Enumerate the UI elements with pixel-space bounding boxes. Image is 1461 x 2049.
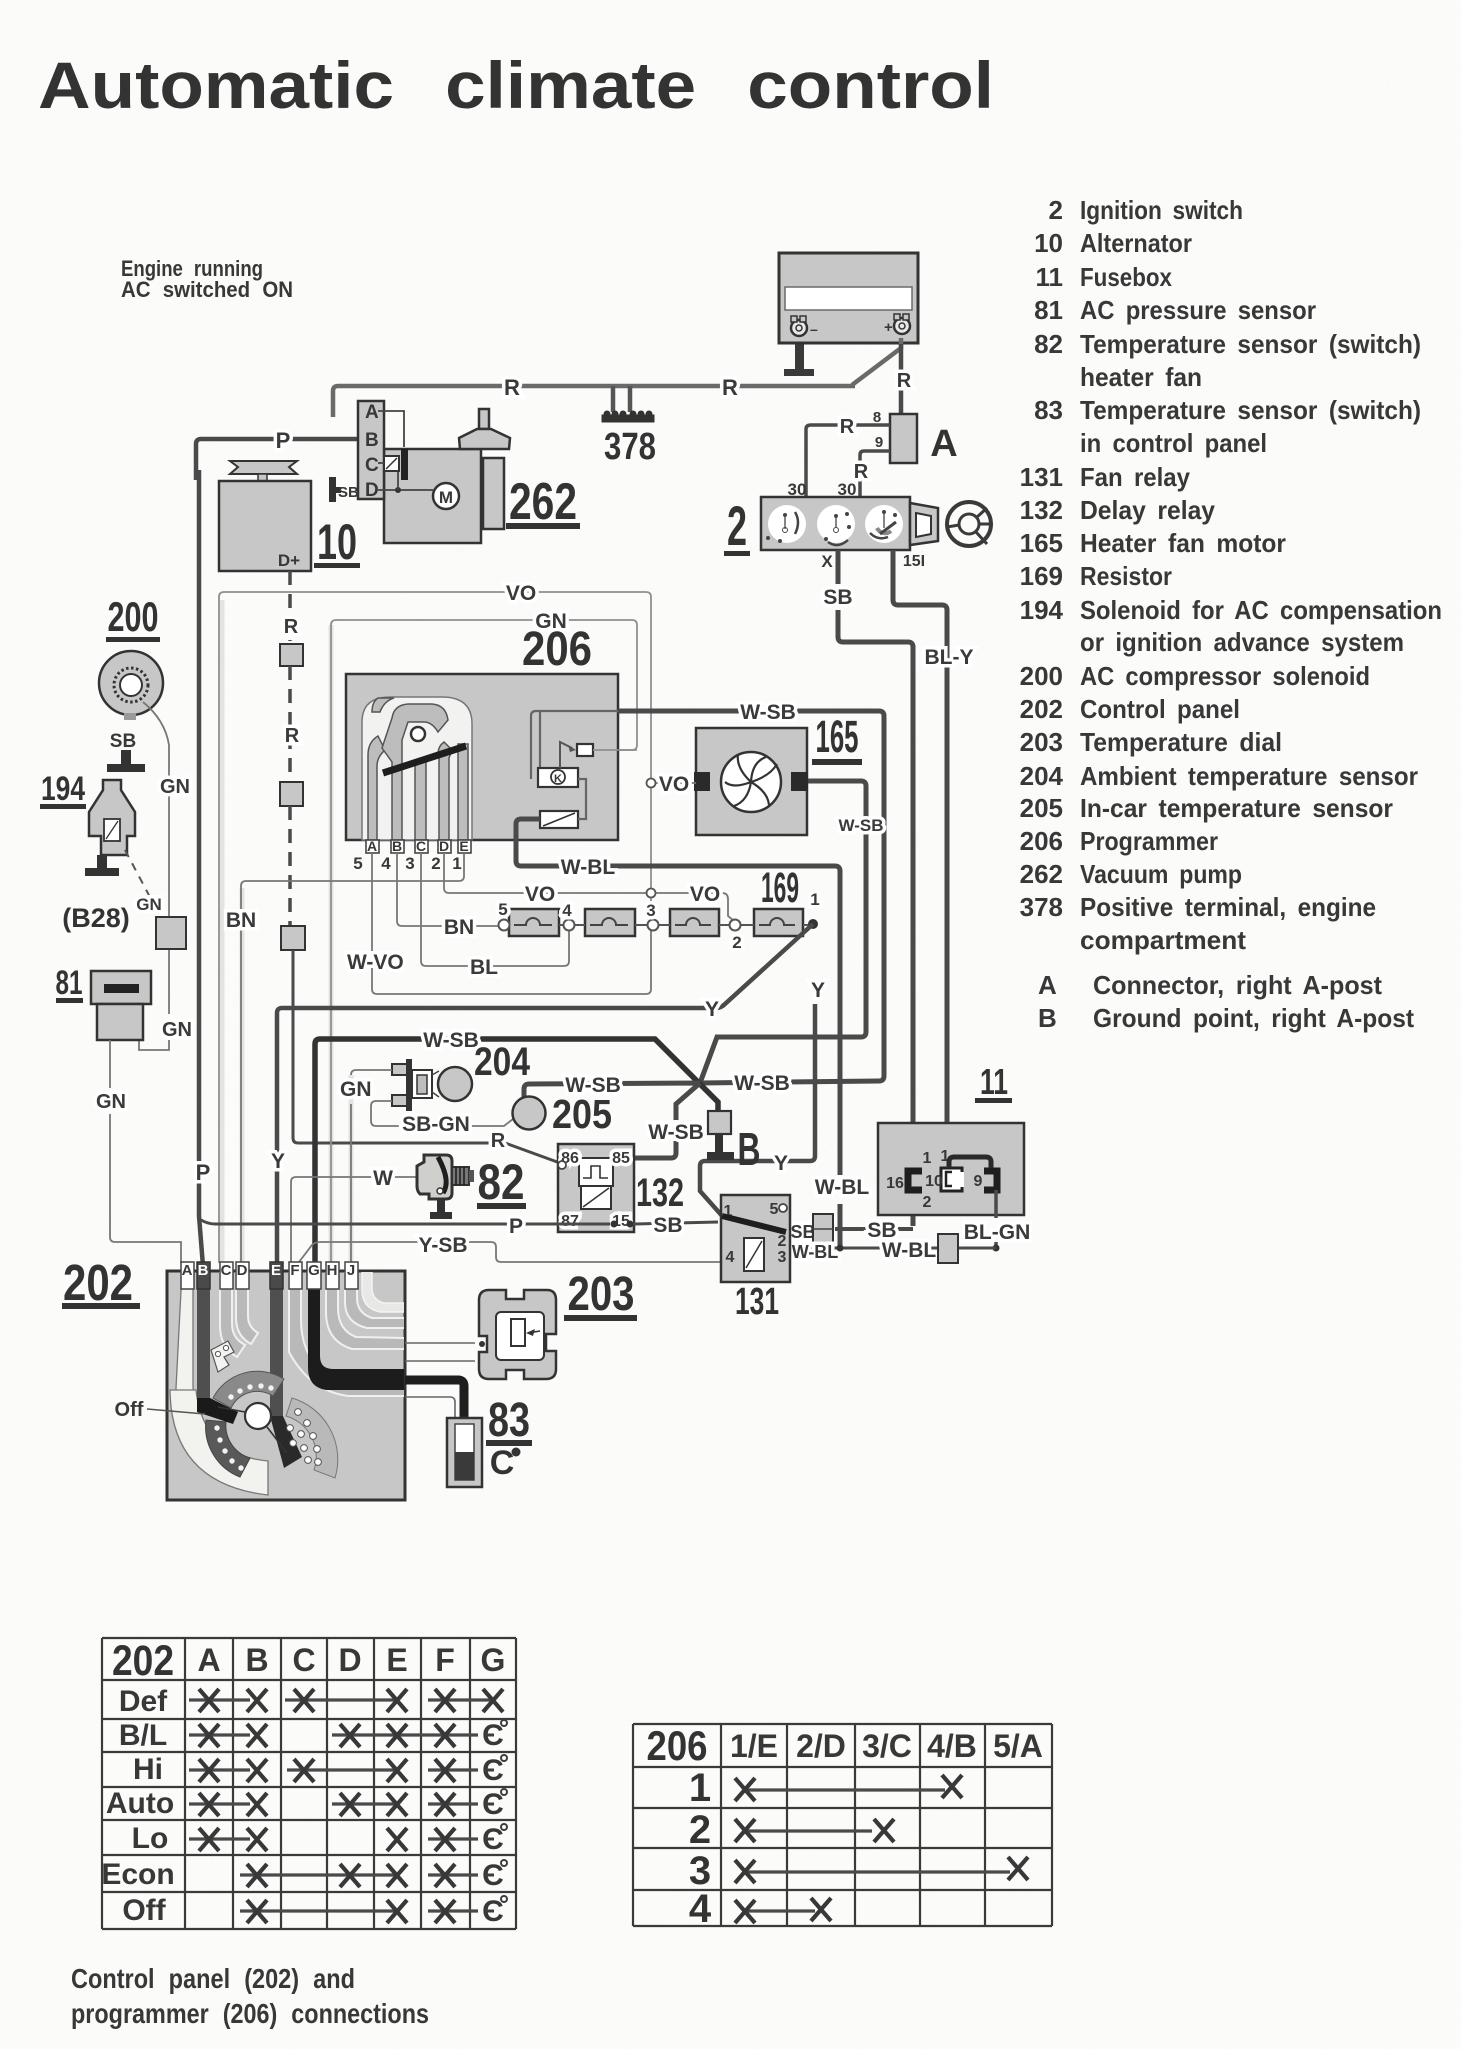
- table 202 marks: [189, 1700, 490, 1911]
- svg-text:3/C: 3/C: [862, 1728, 912, 1764]
- svg-text:2: 2: [431, 854, 440, 873]
- wire GN 204 to H column: [351, 1070, 392, 1263]
- extra white strip right: [362, 1271, 405, 1312]
- ambient sensor 204: [392, 1059, 472, 1111]
- wire 202 to 203 top: [405, 1342, 475, 1344]
- svg-text:132: 132: [636, 1171, 684, 1215]
- pump valve C: [384, 456, 399, 471]
- svg-text:Alternator: Alternator: [1080, 228, 1192, 258]
- svg-text:Off: Off: [115, 1399, 144, 1421]
- fan left tab: [694, 772, 710, 791]
- svg-text:5: 5: [498, 900, 507, 919]
- wire P vertical: [199, 470, 203, 1266]
- big white arc: [170, 1390, 268, 1495]
- svg-text:Vacuum pump: Vacuum pump: [1080, 859, 1242, 889]
- svg-text:AC compressor solenoid: AC compressor solenoid: [1080, 661, 1370, 691]
- svg-text:Y: Y: [705, 998, 719, 1021]
- node circle VO: [647, 889, 656, 898]
- svg-text:W-BL: W-BL: [815, 1176, 870, 1199]
- ghost scan bands: [222, 600, 351, 1262]
- relay 132 timer symbol: [579, 1158, 613, 1186]
- relay 132 terminal circle 86: [558, 1161, 566, 1169]
- svg-text:200: 200: [1020, 661, 1063, 691]
- svg-text:4: 4: [381, 854, 391, 873]
- svg-text:202: 202: [112, 1637, 174, 1685]
- relay 132 bottom terminals: [611, 1221, 618, 1228]
- connector box B28: [156, 917, 186, 949]
- wire W 82 to connector F: [291, 1177, 417, 1263]
- svg-text:–: –: [810, 321, 818, 337]
- panel connector letters: [181, 1262, 358, 1289]
- dashed wire 194 to B28 connector: [125, 850, 160, 916]
- svg-text:194: 194: [41, 770, 85, 808]
- terminal dot relay 132 85: [627, 1155, 634, 1162]
- arc dots: [214, 1383, 273, 1470]
- terminal circles: [499, 920, 510, 931]
- svg-text:B: B: [365, 430, 379, 451]
- battery: [779, 253, 918, 343]
- programmer arrow box: [577, 744, 593, 756]
- strip E dark: [270, 1271, 283, 1416]
- pump pin D wire to motor: [378, 489, 433, 491]
- solenoid 194: [89, 780, 135, 855]
- in-car sensor 205: [513, 1097, 546, 1130]
- switch contact circle 3: [865, 505, 903, 543]
- wire thick black 202 to 83: [405, 1380, 464, 1420]
- svg-text:82: 82: [478, 1154, 525, 1210]
- arc upper with dots: [213, 1371, 284, 1408]
- svg-text:R: R: [504, 375, 520, 400]
- svg-text:W-VO: W-VO: [347, 951, 404, 974]
- wire W-SB 204 to X (G wire): [315, 1039, 718, 1263]
- svg-text:W-BL: W-BL: [561, 856, 616, 879]
- svg-text:W-SB: W-SB: [648, 1121, 704, 1144]
- svg-text:D: D: [439, 838, 449, 854]
- svg-text:M: M: [439, 488, 453, 507]
- resistor hump symbols: [514, 918, 795, 925]
- programmer 206 box: [346, 674, 618, 840]
- svg-text:BN: BN: [226, 909, 256, 932]
- table 206 row numbers: [689, 1766, 712, 1931]
- svg-text:E: E: [271, 1262, 281, 1279]
- svg-text:heater fan: heater fan: [1080, 362, 1202, 392]
- svg-text:11: 11: [1036, 262, 1064, 292]
- programmer GN stub: [593, 749, 637, 751]
- svg-text:W-SB: W-SB: [423, 1029, 479, 1052]
- ignition switch 2 box: [761, 497, 910, 550]
- svg-text:5/A: 5/A: [993, 1728, 1043, 1764]
- wire Y-SB connector F to relay 131 4: [296, 1242, 721, 1266]
- svg-text:BN: BN: [444, 916, 474, 939]
- svg-text:169: 169: [761, 864, 799, 912]
- svg-text:11: 11: [980, 1061, 1008, 1102]
- wire GN from 200 to 81: [139, 702, 169, 1050]
- svg-text:Solenoid for AC compensation: Solenoid for AC compensation: [1080, 595, 1442, 625]
- svg-text:W: W: [373, 1167, 393, 1190]
- svg-text:W-BL: W-BL: [882, 1239, 937, 1262]
- svg-text:2: 2: [923, 1194, 932, 1211]
- svg-text:Y: Y: [811, 979, 825, 1002]
- svg-text:A: A: [1038, 970, 1057, 1000]
- legend list: [1020, 195, 1442, 1033]
- svg-text:VO: VO: [690, 883, 720, 906]
- svg-text:132: 132: [1020, 495, 1063, 525]
- svg-text:1: 1: [452, 854, 461, 873]
- svg-text:GN: GN: [162, 1019, 192, 1041]
- table 206 marks: [745, 1790, 1010, 1911]
- resistor terminal links: [559, 924, 809, 926]
- svg-text:131: 131: [1020, 462, 1063, 492]
- svg-text:C: C: [490, 1444, 515, 1482]
- svg-text:W-SB: W-SB: [740, 701, 796, 724]
- strip H: [326, 1271, 405, 1349]
- svg-text:D: D: [365, 480, 379, 501]
- svg-text:2/D: 2/D: [796, 1728, 846, 1764]
- svg-text:A: A: [197, 1642, 220, 1678]
- black wedge E needle: [270, 1416, 302, 1468]
- svg-text:B: B: [738, 1123, 761, 1175]
- strip A white: [176, 1271, 222, 1462]
- fuse bridge 10 to 9: [949, 1157, 991, 1168]
- terminal 378 stubs: [613, 386, 630, 412]
- svg-text:205: 205: [1020, 793, 1063, 823]
- wire fuse 9 to BL-GN dot: [994, 1190, 998, 1247]
- svg-text:VO: VO: [506, 582, 536, 605]
- programmer maze white area: [362, 697, 472, 840]
- svg-text:K: K: [554, 773, 562, 785]
- terminal dot 1: [808, 919, 818, 929]
- svg-text:R: R: [840, 416, 855, 438]
- svg-text:BL-GN: BL-GN: [964, 1221, 1031, 1244]
- svg-text:SB-GN: SB-GN: [402, 1113, 470, 1136]
- svg-text:J: J: [347, 1262, 355, 1279]
- pump black bar: [401, 449, 408, 480]
- svg-text:In-car temperature sensor: In-car temperature sensor: [1080, 793, 1393, 823]
- wire R dashed from D+: [288, 571, 292, 641]
- ground point B bar: [715, 1134, 723, 1154]
- table 202 grid: [102, 1638, 516, 1929]
- wire GN from 81 to connector A202: [110, 1040, 181, 1263]
- svg-text:165: 165: [1020, 528, 1063, 558]
- battery ground: [784, 369, 814, 376]
- temp sensor 82: [417, 1155, 474, 1219]
- svg-text:C: C: [221, 1262, 232, 1279]
- svg-text:Automatic climate control: Automatic climate control: [38, 48, 994, 122]
- svg-text:1/E: 1/E: [730, 1728, 778, 1764]
- programmer maze traces: [368, 698, 468, 840]
- svg-text:8: 8: [873, 409, 881, 426]
- svg-text:202: 202: [1020, 694, 1063, 724]
- fan right tab: [791, 772, 808, 791]
- svg-text:A: A: [930, 423, 957, 465]
- svg-text:203: 203: [1020, 727, 1063, 757]
- svg-text:BL: BL: [470, 956, 498, 979]
- svg-text:Off: Off: [122, 1894, 166, 1927]
- svg-text:R: R: [285, 725, 300, 747]
- wire W-SB fan to X: [700, 781, 866, 1083]
- relay 132 coil: [581, 1186, 611, 1209]
- svg-text:C: C: [365, 455, 379, 476]
- AC pressure sensor 81: [91, 971, 151, 1004]
- svg-text:Ground point, right A-post: Ground point, right A-post: [1093, 1003, 1414, 1033]
- wire R dashed 3: [288, 806, 292, 926]
- temperature dial 203: [479, 1290, 556, 1379]
- svg-text:378: 378: [1020, 892, 1063, 922]
- programmer solenoid box: [540, 811, 578, 828]
- svg-text:203: 203: [568, 1268, 635, 1321]
- svg-text:Delay relay: Delay relay: [1080, 495, 1216, 525]
- wire pin B to resistor 5 (BN): [397, 853, 498, 926]
- svg-text:4/B: 4/B: [927, 1728, 977, 1764]
- connector on R wire 3: [281, 926, 305, 950]
- alternator 10 pulley: [230, 461, 297, 474]
- node dot W-BL: [837, 1245, 844, 1252]
- programmer loop wire: [578, 779, 586, 819]
- svg-text:Programmer: Programmer: [1080, 826, 1218, 856]
- black wedge B pointer: [197, 1398, 238, 1424]
- svg-text:2: 2: [778, 1233, 787, 1250]
- wire W-BL relay 131 3 to BL-GN dot: [790, 1247, 996, 1250]
- wire Y from resistor 1 to connector E: [277, 924, 813, 1263]
- connector on R wire 1: [280, 644, 303, 666]
- relay 131 blade: [722, 1216, 786, 1232]
- svg-text:H: H: [327, 1262, 338, 1279]
- svg-text:in control panel: in control panel: [1080, 428, 1267, 458]
- knob: [245, 1403, 271, 1429]
- svg-text:W-BL: W-BL: [792, 1242, 839, 1262]
- key symbol: [947, 502, 991, 546]
- svg-text:Control panel (202) and: Control panel (202) and: [71, 1963, 355, 1994]
- control panel 202 box: [167, 1271, 405, 1500]
- svg-text:206: 206: [1020, 826, 1063, 856]
- connector on R wire 2: [280, 782, 303, 806]
- svg-text:P: P: [196, 1160, 211, 1185]
- svg-text:+: +: [884, 319, 893, 336]
- connector A box: [890, 414, 917, 463]
- svg-text:Positive terminal, engine: Positive terminal, engine: [1080, 892, 1376, 922]
- svg-text:E: E: [459, 838, 468, 854]
- svg-text:Hi: Hi: [133, 1753, 163, 1786]
- wire frame GN (net GN: H - programmer): [331, 620, 637, 1263]
- svg-text:G: G: [481, 1642, 506, 1678]
- svg-text:Auto: Auto: [106, 1787, 174, 1820]
- svg-text:Temperature sensor (switch): Temperature sensor (switch): [1080, 395, 1421, 425]
- right sector dots: [286, 1398, 338, 1478]
- svg-text:GN: GN: [136, 895, 162, 914]
- AC compressor solenoid 200: [99, 651, 163, 715]
- table 202 C-degree symbols in G column: [482, 1719, 507, 1928]
- svg-text:5: 5: [353, 854, 362, 873]
- svg-text:VO: VO: [525, 883, 555, 906]
- svg-text:D+: D+: [278, 551, 300, 570]
- svg-text:compartment: compartment: [1080, 925, 1246, 955]
- resistor 169 elements: [509, 909, 803, 936]
- svg-text:16: 16: [886, 1175, 904, 1192]
- svg-text:Fusebox: Fusebox: [1080, 262, 1172, 292]
- svg-text:1: 1: [689, 1766, 711, 1810]
- fan relay 131 box: [721, 1195, 790, 1282]
- svg-text:AC switched ON: AC switched ON: [121, 277, 293, 302]
- svg-text:200: 200: [108, 593, 159, 640]
- wire W-SB 205 to X and to relay 132: [524, 1083, 700, 1158]
- strip F: [289, 1271, 405, 1396]
- arc lower with dots: [206, 1420, 250, 1477]
- relay 131 coil: [744, 1238, 764, 1271]
- programmer needle: [383, 746, 466, 773]
- svg-text:GN: GN: [96, 1091, 126, 1113]
- battery terminal plus: [884, 314, 910, 336]
- svg-text:194: 194: [1020, 595, 1064, 625]
- connector on W-BL wire: [938, 1234, 958, 1263]
- svg-text:SB: SB: [823, 586, 852, 609]
- svg-text:B: B: [392, 838, 402, 854]
- temp sensor 83: [447, 1418, 482, 1487]
- svg-text:A: A: [367, 838, 377, 854]
- svg-text:GN: GN: [340, 1078, 372, 1101]
- fuse 9 bracket: [984, 1171, 997, 1190]
- wire P to relay 132 87: [201, 1220, 610, 1224]
- svg-text:9: 9: [974, 1173, 983, 1190]
- svg-text:SB: SB: [790, 1222, 815, 1242]
- ground under 194: [97, 855, 107, 872]
- vacuum pump 262 body blocks: [358, 401, 510, 543]
- programmer relay wire top: [531, 711, 618, 779]
- svg-text:B: B: [1038, 1003, 1057, 1033]
- svg-text:Y-SB: Y-SB: [418, 1234, 467, 1257]
- svg-text:Lo: Lo: [132, 1822, 169, 1855]
- fan wheel: [721, 752, 781, 812]
- strip G black: [308, 1271, 405, 1390]
- svg-text:169: 169: [1020, 561, 1063, 591]
- svg-text:1: 1: [923, 1150, 932, 1167]
- svg-text:E: E: [386, 1642, 407, 1678]
- svg-text:AC pressure sensor: AC pressure sensor: [1080, 295, 1316, 325]
- switch connector trapezoid: [910, 503, 938, 545]
- svg-text:81: 81: [1034, 295, 1063, 325]
- delay relay 132 box: [558, 1144, 634, 1232]
- svg-text:F: F: [290, 1262, 299, 1279]
- pump SB ground: [329, 477, 336, 502]
- svg-text:2: 2: [1049, 195, 1063, 225]
- svg-text:Def: Def: [119, 1685, 168, 1718]
- svg-text:Resistor: Resistor: [1080, 561, 1172, 591]
- svg-text:Ignition switch: Ignition switch: [1080, 195, 1243, 225]
- wire 202 to 203 bottom: [405, 1360, 475, 1362]
- wire R dashed 2: [288, 666, 292, 782]
- svg-text:R: R: [491, 1130, 506, 1152]
- svg-text:15I: 15I: [903, 553, 925, 570]
- fuse 10 white: [941, 1168, 962, 1191]
- pump motor M circle: [433, 483, 459, 509]
- svg-text:9: 9: [875, 434, 883, 451]
- strip B dark: [197, 1271, 210, 1398]
- svg-text:131: 131: [735, 1281, 779, 1323]
- battery ground wire: [795, 340, 804, 372]
- svg-text:3: 3: [646, 901, 655, 920]
- svg-text:D: D: [338, 1642, 361, 1678]
- wire off pointer: [147, 1409, 205, 1414]
- svg-text:VO: VO: [659, 773, 689, 796]
- svg-text:P: P: [276, 428, 291, 453]
- svg-text:206: 206: [522, 623, 592, 676]
- switch contact circle 2: [817, 505, 855, 545]
- svg-text:87: 87: [561, 1213, 579, 1230]
- svg-text:R: R: [722, 375, 738, 400]
- svg-text:202: 202: [63, 1254, 133, 1311]
- svg-text:4: 4: [726, 1249, 735, 1266]
- svg-text:4: 4: [689, 1887, 712, 1931]
- svg-text:Control panel: Control panel: [1080, 694, 1240, 724]
- programmer pins A-E: [366, 838, 471, 854]
- wire R solid to relay 132: [293, 950, 560, 1163]
- svg-text:10: 10: [925, 1173, 943, 1190]
- pump pin A trace: [378, 411, 404, 447]
- strip J: [345, 1271, 405, 1328]
- svg-text:Econ: Econ: [101, 1858, 174, 1891]
- svg-text:83: 83: [488, 1394, 530, 1447]
- svg-text:82: 82: [1034, 329, 1063, 359]
- svg-text:G: G: [308, 1262, 320, 1279]
- wire pin C to resistor 4 (BL): [421, 853, 569, 966]
- wire thin 202 to 83: [405, 1397, 455, 1422]
- svg-text:2: 2: [727, 494, 747, 557]
- switch contact circle 1: [766, 505, 806, 543]
- wire SB-GN 204 to 205: [371, 1101, 513, 1126]
- strip D: [236, 1271, 258, 1344]
- svg-text:81: 81: [56, 964, 83, 1002]
- svg-text:2: 2: [732, 933, 741, 952]
- connector A pin 9 wire: [860, 451, 890, 500]
- svg-text:B: B: [198, 1262, 209, 1279]
- wire SB ignition X to fusebox 16: [838, 550, 913, 1226]
- wire R battery to connector A: [899, 344, 904, 449]
- panel interior: [170, 1271, 405, 1495]
- svg-text:SB: SB: [338, 484, 359, 501]
- heater fan motor 165 box: [696, 728, 807, 835]
- wire from battery plus diagonal to R line: [852, 338, 901, 385]
- svg-text:R: R: [897, 370, 912, 392]
- svg-text:Fan relay: Fan relay: [1080, 462, 1190, 492]
- svg-text:GN: GN: [160, 776, 190, 798]
- wire SB 132 to 131: [633, 1222, 718, 1224]
- svg-text:Temperature dial: Temperature dial: [1080, 727, 1282, 757]
- battery terminal minus: [791, 316, 818, 337]
- svg-text:SB: SB: [110, 731, 136, 752]
- svg-text:SB: SB: [653, 1214, 682, 1237]
- wire VO node to fan: [656, 782, 696, 784]
- svg-text:Y: Y: [774, 1152, 788, 1175]
- svg-text:2: 2: [689, 1808, 711, 1852]
- ground under 200: [121, 750, 131, 766]
- svg-text:A: A: [365, 402, 379, 423]
- connector on SB wire: [813, 1214, 833, 1244]
- wire SB relay 131 to fusebox: [786, 1229, 913, 1231]
- svg-text:F: F: [435, 1642, 455, 1678]
- svg-text:D: D: [237, 1262, 248, 1279]
- svg-text:4: 4: [562, 901, 572, 920]
- svg-text:W-SB: W-SB: [839, 816, 884, 835]
- svg-text:X: X: [821, 552, 833, 571]
- svg-text:204: 204: [1020, 761, 1064, 791]
- svg-text:B: B: [245, 1642, 268, 1678]
- svg-text:programmer (206) connections: programmer (206) connections: [71, 1998, 429, 2029]
- svg-text:3: 3: [778, 1249, 787, 1266]
- svg-text:85: 85: [612, 1150, 630, 1167]
- strip C: [220, 1271, 245, 1357]
- wire Y from resistor 1 to relay 131: [700, 1004, 815, 1218]
- svg-text:Heater fan motor: Heater fan motor: [1080, 528, 1286, 558]
- svg-text:W-SB: W-SB: [734, 1072, 790, 1095]
